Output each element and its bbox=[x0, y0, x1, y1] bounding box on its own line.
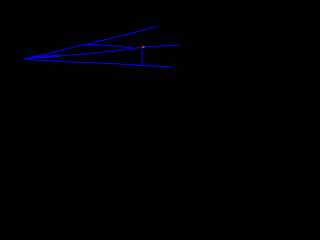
wire upper ray from left vertex to top right bbox=[24, 26, 157, 59]
wire horizontal line right of junction bbox=[145, 45, 179, 47]
wire short middle strand merging into middle ray bbox=[24, 55, 62, 59]
wire lower ray from vertex descending to lower right bbox=[24, 59, 171, 67]
node junction point (red dot) bbox=[142, 46, 145, 49]
wire vertical connector below junction bbox=[141, 49, 143, 66]
wire middle ray from vertex to junction bbox=[24, 47, 143, 59]
wire branch ray leaving upper ray toward junction bbox=[78, 45, 134, 49]
